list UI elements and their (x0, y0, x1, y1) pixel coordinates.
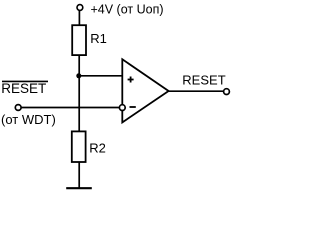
ground bar (66, 187, 92, 189)
input terminal circle (от WDT) (15, 105, 21, 111)
op-amp U1 triangle (122, 59, 168, 122)
output wire op-amp to terminal (169, 90, 224, 92)
wire terminal to R1 (78, 10, 80, 25)
minus sign (inverting input) (130, 106, 136, 108)
svg-text:(от WDT): (от WDT) (1, 112, 56, 127)
wire R2 to ground (78, 162, 80, 188)
svg-text:R1: R1 (90, 31, 107, 46)
svg-text:RESET: RESET (182, 72, 225, 87)
power terminal +4V (77, 5, 83, 11)
wire input terminal to inverting bubble (21, 107, 119, 109)
plus sign (noninverting input) (128, 77, 134, 83)
output terminal circle (224, 89, 230, 95)
resistor R2 (72, 131, 86, 162)
svg-text:RESET: RESET (1, 81, 46, 96)
wire R1 to node A (78, 55, 80, 76)
vertical wire node A to R2 (78, 76, 80, 132)
inversion bubble at - input (119, 105, 125, 111)
node A junction dot (76, 73, 81, 78)
resistor R1 (72, 25, 86, 55)
wire node A to op-amp + input (79, 75, 122, 77)
svg-text:+4V (от Uоп): +4V (от Uоп) (91, 2, 164, 16)
overline of RESET (left) (2, 80, 48, 82)
svg-text:R2: R2 (89, 140, 106, 155)
